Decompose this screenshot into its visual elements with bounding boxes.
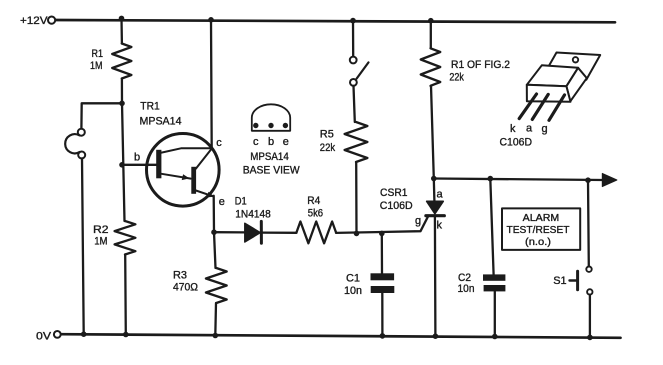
svg-text:e: e [219, 196, 225, 208]
svg-text:e: e [283, 136, 289, 148]
svg-text:R5: R5 [320, 128, 334, 140]
svg-text:TR1: TR1 [140, 101, 160, 113]
svg-text:R4: R4 [307, 195, 320, 207]
svg-text:b: b [268, 136, 274, 148]
svg-text:C106D: C106D [380, 200, 413, 212]
svg-text:R3: R3 [173, 269, 187, 281]
svg-text:c: c [253, 136, 259, 148]
svg-text:470Ω: 470Ω [173, 282, 198, 294]
svg-text:10n: 10n [458, 283, 475, 295]
svg-text:TEST/RESET: TEST/RESET [507, 224, 571, 236]
svg-text:k: k [510, 123, 516, 135]
svg-text:k: k [437, 220, 443, 232]
svg-text:+12V: +12V [20, 15, 48, 27]
svg-text:a: a [526, 123, 533, 135]
svg-text:c: c [216, 137, 222, 149]
svg-text:D1: D1 [235, 196, 247, 208]
svg-text:0V: 0V [36, 331, 52, 343]
svg-text:R1 OF FIG.2: R1 OF FIG.2 [451, 59, 510, 71]
svg-text:BASE VIEW: BASE VIEW [243, 165, 301, 177]
svg-text:S1: S1 [553, 275, 566, 287]
svg-text:MPSA14: MPSA14 [250, 151, 288, 163]
svg-text:22k: 22k [320, 142, 336, 154]
svg-text:g: g [415, 215, 421, 227]
svg-text:1M: 1M [90, 60, 103, 72]
svg-text:R1: R1 [92, 48, 104, 60]
svg-text:10n: 10n [344, 285, 362, 297]
svg-text:1N4148: 1N4148 [235, 209, 270, 221]
svg-text:1M: 1M [94, 236, 107, 248]
svg-text:ALARM: ALARM [523, 212, 560, 224]
svg-text:5k6: 5k6 [308, 208, 323, 220]
svg-text:(n.o.): (n.o.) [525, 236, 551, 248]
svg-text:22k: 22k [449, 71, 464, 83]
svg-text:g: g [542, 123, 548, 135]
svg-text:CSR1: CSR1 [380, 187, 408, 199]
svg-text:MPSA14: MPSA14 [140, 115, 182, 127]
svg-text:C1: C1 [346, 272, 360, 284]
svg-text:R2: R2 [93, 224, 109, 236]
svg-text:b: b [134, 152, 140, 164]
svg-text:a: a [437, 189, 444, 201]
svg-text:C2: C2 [458, 272, 471, 284]
svg-text:C106D: C106D [500, 136, 533, 148]
